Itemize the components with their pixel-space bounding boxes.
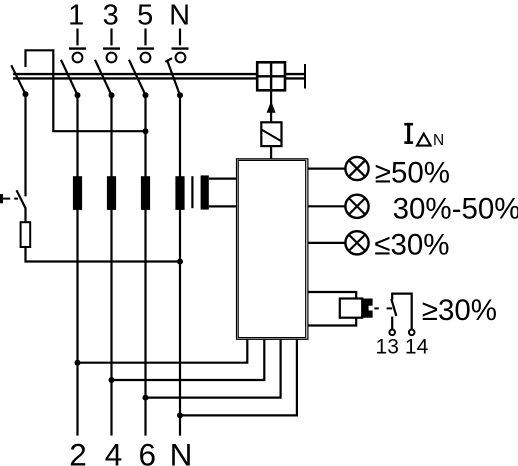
node: junction pole 2 (75, 360, 81, 366)
switch blade pole 5 (129, 60, 146, 95)
svg-text:4: 4 (105, 437, 123, 466)
switch blade pole 3 (95, 60, 112, 95)
svg-text:30%-50%: 30%-50% (393, 193, 518, 226)
wire: box pin 1 to pole 2 (78, 339, 248, 362)
mechanical linkage double line right of actuator (285, 74, 304, 78)
lamp H2 (30%-50%) (345, 195, 368, 218)
svg-text:N: N (170, 437, 193, 466)
node: junction pole N bottom (177, 412, 183, 418)
test pushbutton actuator (0, 194, 18, 203)
relay coil box (340, 299, 362, 318)
svg-text:N: N (169, 0, 190, 32)
node: pole 5 pivot (143, 92, 149, 98)
wire: resistor to N (26, 247, 181, 262)
node: test pole pivot (23, 91, 29, 97)
node: test wire junction on pole 5 (143, 128, 149, 134)
terminal 1 (lead, bar, socket circle) (69, 29, 86, 63)
terminal N top (172, 29, 189, 63)
CT winding bar pole 1 (73, 176, 82, 210)
relay output frame (308, 292, 356, 326)
wire: box to lamp 3 (308, 242, 346, 244)
wire: pole N conductor (179, 95, 181, 435)
svg-text:3: 3 (103, 0, 119, 32)
wire: box pin 2 to pole 4 (112, 339, 265, 380)
armature notch (369, 306, 373, 311)
svg-text:2: 2 (69, 437, 87, 466)
wire: pole 5 conductor (144, 95, 146, 435)
wire: actuator to trip coil (270, 90, 272, 122)
svg-text:1: 1 (68, 0, 84, 32)
svg-text:≤30%: ≤30% (374, 229, 449, 262)
label I delta N (404, 123, 444, 149)
wire: test branch vertical (24, 94, 26, 196)
CT winding bar pole 3 (107, 176, 116, 210)
wire: secondary to box bottom lead (209, 205, 237, 207)
wire: box to lamp 1 (308, 168, 346, 170)
lamp H1 (>=50%) (345, 157, 368, 180)
arrow head (trip direction) (267, 101, 276, 113)
contact 13-14 top wire (392, 294, 412, 330)
CT core line (191, 176, 193, 208)
svg-text:5: 5 (137, 0, 153, 32)
switch blade pole N with tick (165, 58, 180, 95)
electronics box (double border) (237, 159, 308, 339)
actuator square with cross (257, 62, 285, 90)
wire: box to lamp 2 (308, 205, 346, 207)
node: pole 1 pivot (75, 92, 81, 98)
terminal 3 (103, 29, 120, 63)
node: junction pole 4 (109, 377, 115, 383)
wire: pole 3 conductor (110, 95, 112, 435)
svg-text:14: 14 (405, 336, 429, 359)
mechanical link dashes (374, 307, 392, 309)
wire: box pin 3 to pole 6 (146, 339, 281, 397)
relay armature block (362, 299, 372, 318)
svg-text:≥50%: ≥50% (375, 156, 450, 189)
svg-text:N: N (433, 132, 444, 149)
terminal circle 13 (389, 330, 395, 336)
test pole switch blade (11, 65, 25, 94)
wire: trip coil to electronics box (270, 146, 272, 159)
terminal circle 14 (409, 330, 415, 336)
switch blade pole 1 (61, 60, 78, 95)
linkage end bar (304, 64, 306, 89)
node: junction pole 6 (143, 395, 149, 401)
lamp H3 (<=30%) (345, 231, 368, 254)
test pole hook wire to pole 5 (26, 50, 146, 131)
CT winding bar pole 5 (141, 176, 150, 210)
resistor R test (21, 222, 31, 247)
svg-text:6: 6 (139, 437, 157, 466)
node: test return junction on N (177, 259, 183, 265)
mechanical linkage double line (13, 74, 257, 78)
svg-text:13: 13 (376, 336, 399, 359)
node: pole 3 pivot (109, 92, 115, 98)
CT secondary winding block (201, 175, 209, 209)
trip coil (square with diagonal) (261, 122, 281, 146)
wire: contact to terminal 13 (391, 317, 393, 330)
node: pole N pivot (177, 92, 183, 98)
wire: box pin 4 to pole N (180, 339, 297, 415)
terminal 5 (137, 29, 154, 63)
contact blade (391, 299, 396, 316)
wire: blade to resistor (24, 208, 26, 223)
svg-text:≥30%: ≥30% (422, 294, 497, 327)
CT winding bar pole N (175, 176, 184, 210)
wire: pole 1 conductor (76, 95, 78, 435)
test switch blade (17, 190, 26, 208)
wire: secondary to box top lead (209, 178, 237, 180)
